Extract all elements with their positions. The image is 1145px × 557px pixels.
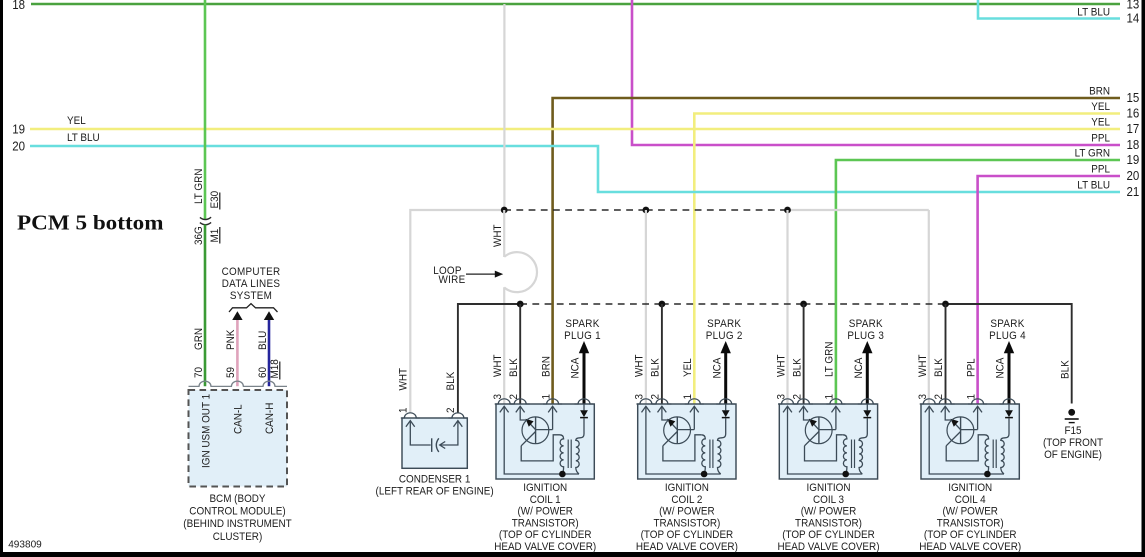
svg-text:(TOP OF CYLINDER: (TOP OF CYLINDER bbox=[782, 529, 875, 541]
svg-text:BCM (BODY: BCM (BODY bbox=[209, 493, 266, 505]
wire YEL row 16 (to ignition coil 2 pin 1) bbox=[694, 101, 1120, 404]
svg-text:2: 2 bbox=[445, 408, 457, 414]
svg-text:WHT: WHT bbox=[492, 354, 504, 377]
svg-text:SPARK: SPARK bbox=[565, 318, 600, 330]
junction dot (BLK bus / coil4 BLK) bbox=[942, 301, 949, 308]
svg-text:IGNITION: IGNITION bbox=[665, 482, 709, 494]
svg-text:CAN-L: CAN-L bbox=[233, 404, 245, 434]
wire WHT bus (condenser pin1 across coil pins 3) bbox=[410, 210, 929, 414]
svg-text:LT BLU: LT BLU bbox=[1077, 180, 1110, 192]
junction dot (coil 4 windings common) bbox=[984, 471, 991, 478]
svg-text:BLK: BLK bbox=[650, 358, 662, 377]
wire PPL row 18 (vertical x=632 then horizontal) bbox=[632, 0, 1120, 145]
svg-text:F15: F15 bbox=[1064, 425, 1081, 437]
wire BLU (BCM pin 60 to data lines) with arrow bbox=[257, 311, 274, 386]
svg-text:WHT: WHT bbox=[397, 368, 409, 391]
svg-text:BLK: BLK bbox=[791, 358, 803, 377]
svg-text:21: 21 bbox=[1127, 185, 1140, 199]
svg-text:NCA: NCA bbox=[995, 357, 1007, 378]
svg-text:20: 20 bbox=[1127, 169, 1140, 183]
svg-text:CAN-H: CAN-H bbox=[264, 403, 276, 434]
junction dot (BLK bus / coil1 BLK) bbox=[517, 301, 524, 308]
junction dot (coil 2 windings common) bbox=[701, 471, 708, 478]
svg-text:14: 14 bbox=[1127, 12, 1140, 26]
loop wire (circle) bbox=[504, 252, 537, 292]
svg-text:19: 19 bbox=[12, 123, 25, 137]
svg-text:WHT: WHT bbox=[917, 354, 929, 377]
svg-text:M1: M1 bbox=[209, 229, 221, 243]
svg-text:(W/ POWER: (W/ POWER bbox=[517, 506, 573, 518]
svg-text:PPL: PPL bbox=[965, 358, 977, 377]
svg-text:CONTROL MODULE): CONTROL MODULE) bbox=[189, 506, 285, 518]
svg-text:18: 18 bbox=[12, 0, 25, 12]
label M1 (connector, below) bbox=[209, 227, 221, 244]
svg-text:13: 13 bbox=[1127, 0, 1140, 12]
svg-text:YEL: YEL bbox=[682, 358, 694, 377]
junction dot (BLK bus / coil2 BLK) bbox=[659, 301, 666, 308]
condenser C1 box bbox=[401, 413, 468, 469]
wire PPL row 20 (to ignition coil 4 pin 1) bbox=[978, 164, 1120, 405]
wire BLK drop to coil 1 pin 2 bbox=[519, 304, 521, 404]
ignition coil 2 (w/ power transistor) bbox=[636, 399, 736, 479]
svg-text:PPL: PPL bbox=[1091, 133, 1110, 145]
svg-text:BLK: BLK bbox=[508, 358, 520, 377]
wire WHT from top edge to WHT bus bbox=[503, 4, 505, 210]
wire BLK drop to coil 2 pin 2 bbox=[661, 304, 663, 404]
spark plug 1 output wire with arrow bbox=[570, 341, 590, 404]
svg-text:PCM 5 bottom: PCM 5 bottom bbox=[17, 211, 164, 235]
svg-text:IGNITION: IGNITION bbox=[523, 482, 567, 494]
wire LT GRN row 19 (to ignition coil 3 pin 1) bbox=[836, 148, 1120, 405]
LOOP WIRE callout bbox=[433, 265, 503, 286]
svg-text:SPARK: SPARK bbox=[707, 318, 742, 330]
connector label M18 (BCM) bbox=[269, 359, 281, 379]
svg-text:PLUG 3: PLUG 3 bbox=[847, 330, 884, 342]
svg-text:LT GRN: LT GRN bbox=[193, 169, 205, 204]
svg-text:59: 59 bbox=[225, 367, 237, 378]
svg-text:(W/ POWER: (W/ POWER bbox=[801, 506, 857, 518]
spark plug 4 output wire with arrow bbox=[995, 341, 1015, 404]
svg-text:PLUG 1: PLUG 1 bbox=[564, 330, 601, 342]
svg-text:GRN: GRN bbox=[193, 328, 205, 350]
svg-text:(W/ POWER: (W/ POWER bbox=[942, 506, 998, 518]
ignition coil 1 (w/ power transistor) bbox=[495, 399, 595, 479]
svg-text:DATA LINES: DATA LINES bbox=[222, 278, 281, 290]
wire LT BLU row 20/21 (jogs down at x=598) bbox=[30, 132, 1120, 192]
svg-text:70: 70 bbox=[193, 367, 205, 378]
svg-text:PPL: PPL bbox=[1091, 164, 1110, 176]
svg-text:E30: E30 bbox=[209, 191, 221, 209]
svg-text:15: 15 bbox=[1127, 91, 1140, 105]
junction dot (BLK bus / coil3 BLK) bbox=[800, 301, 807, 308]
svg-text:20: 20 bbox=[12, 140, 25, 154]
ignition coil 3 (w/ power transistor) bbox=[778, 399, 878, 479]
wire WHT drop to coil 2 pin 3 bbox=[645, 210, 647, 404]
SPARK PLUG 4 label bbox=[989, 318, 1026, 342]
wire BRN row 15 (to ignition coil 1 pin 1) bbox=[553, 86, 1120, 405]
wire BLK bus (condenser pin2 across coil pins 2 to F15) bbox=[458, 304, 1072, 414]
wire BLK drop to coil 4 pin 2 bbox=[945, 304, 947, 404]
svg-text:WHT: WHT bbox=[634, 354, 646, 377]
spark plug 2 output wire with arrow bbox=[711, 341, 731, 404]
svg-text:19: 19 bbox=[1127, 153, 1140, 167]
svg-text:PLUG 2: PLUG 2 bbox=[706, 330, 743, 342]
svg-text:16: 16 bbox=[1127, 107, 1140, 121]
wire LT GRN trunk from top (PCM) bbox=[193, 0, 205, 219]
label E30 (connector, above) bbox=[209, 191, 221, 210]
svg-text:BLK: BLK bbox=[445, 371, 457, 390]
svg-text:(W/ POWER: (W/ POWER bbox=[659, 506, 715, 518]
svg-text:(TOP OF CYLINDER: (TOP OF CYLINDER bbox=[499, 529, 592, 541]
svg-text:TRANSISTOR): TRANSISTOR) bbox=[937, 517, 1004, 529]
svg-text:COIL 1: COIL 1 bbox=[530, 494, 561, 506]
svg-text:BRN: BRN bbox=[540, 356, 552, 377]
svg-text:17: 17 bbox=[1127, 122, 1140, 136]
svg-text:IGN USM OUT 1: IGN USM OUT 1 bbox=[200, 394, 212, 468]
svg-text:YEL: YEL bbox=[1091, 117, 1110, 129]
svg-text:YEL: YEL bbox=[67, 115, 86, 127]
svg-text:PNK: PNK bbox=[225, 329, 237, 350]
BCM caption bbox=[183, 493, 292, 543]
svg-text:WHT: WHT bbox=[492, 224, 504, 247]
SPARK PLUG 1 label bbox=[564, 318, 601, 342]
svg-text:BLU: BLU bbox=[257, 331, 269, 350]
svg-text:493809: 493809 bbox=[8, 539, 42, 551]
svg-text:LT GRN: LT GRN bbox=[824, 342, 836, 377]
ignition coil 4 (w/ power transistor) bbox=[920, 399, 1020, 479]
brace over data-line arrows bbox=[229, 304, 278, 312]
svg-text:CONDENSER 1: CONDENSER 1 bbox=[399, 474, 471, 486]
inline connector M1/E30 on green trunk bbox=[200, 217, 211, 225]
svg-text:(LEFT REAR OF ENGINE): (LEFT REAR OF ENGINE) bbox=[376, 486, 494, 498]
svg-text:60: 60 bbox=[257, 367, 269, 378]
svg-text:1: 1 bbox=[397, 408, 409, 414]
svg-text:IGNITION: IGNITION bbox=[948, 482, 992, 494]
svg-text:SPARK: SPARK bbox=[990, 318, 1025, 330]
ignition coil 2 caption bbox=[636, 482, 738, 553]
svg-text:YEL: YEL bbox=[1091, 101, 1110, 113]
junction dot (coil 1 windings common) bbox=[559, 471, 566, 478]
svg-text:(TOP OF CYLINDER: (TOP OF CYLINDER bbox=[641, 529, 734, 541]
svg-text:TRANSISTOR): TRANSISTOR) bbox=[795, 517, 862, 529]
svg-text:(TOP FRONT: (TOP FRONT bbox=[1043, 437, 1103, 449]
wire YEL row 19/17 (full width horizontal) bbox=[30, 115, 1120, 129]
svg-text:COIL 4: COIL 4 bbox=[955, 494, 986, 506]
ignition coil 1 caption bbox=[494, 482, 596, 553]
junction dot (WHT bus / coil3 WHT) bbox=[784, 207, 791, 214]
svg-text:36G: 36G bbox=[193, 226, 205, 245]
junction dot (coil 3 windings common) bbox=[842, 471, 849, 478]
wire WHT drop to coil 1 pin 3 with loop bbox=[492, 210, 504, 404]
node: COMPUTER DATA LINES SYSTEM label bbox=[222, 266, 281, 302]
svg-text:LT BLU: LT BLU bbox=[1077, 7, 1110, 19]
svg-text:BRN: BRN bbox=[1089, 86, 1110, 98]
SPARK PLUG 3 label bbox=[847, 318, 884, 342]
svg-text:COIL 2: COIL 2 bbox=[671, 494, 702, 506]
svg-text:PLUG 4: PLUG 4 bbox=[989, 330, 1026, 342]
svg-text:HEAD VALVE COVER): HEAD VALVE COVER) bbox=[494, 541, 596, 553]
condenser C1 caption bbox=[376, 474, 494, 498]
svg-text:NCA: NCA bbox=[853, 357, 865, 378]
wire GRN row 18/13 (top horizontal) bbox=[31, 3, 1120, 6]
svg-text:SPARK: SPARK bbox=[849, 318, 884, 330]
ground F15 bbox=[1060, 360, 1079, 423]
svg-text:CLUSTER): CLUSTER) bbox=[213, 531, 263, 543]
svg-text:LT GRN: LT GRN bbox=[1075, 148, 1110, 160]
svg-text:OF ENGINE): OF ENGINE) bbox=[1044, 449, 1102, 461]
svg-text:HEAD VALVE COVER): HEAD VALVE COVER) bbox=[919, 541, 1021, 553]
svg-text:(TOP OF CYLINDER: (TOP OF CYLINDER bbox=[924, 529, 1017, 541]
ignition coil 4 caption bbox=[919, 482, 1021, 553]
svg-text:WIRE: WIRE bbox=[439, 274, 466, 286]
spark plug 3 output wire with arrow bbox=[853, 341, 873, 404]
svg-text:WHT: WHT bbox=[775, 354, 787, 377]
SPARK PLUG 2 label bbox=[706, 318, 743, 342]
svg-text:NCA: NCA bbox=[711, 357, 723, 378]
svg-text:(BEHIND INSTRUMENT: (BEHIND INSTRUMENT bbox=[183, 518, 292, 530]
svg-text:SYSTEM: SYSTEM bbox=[230, 290, 272, 302]
svg-text:BLK: BLK bbox=[933, 358, 945, 377]
svg-text:HEAD VALVE COVER): HEAD VALVE COVER) bbox=[778, 541, 880, 553]
svg-text:IGNITION: IGNITION bbox=[807, 482, 851, 494]
wire PNK (BCM pin 59 to data lines) with arrow bbox=[225, 311, 242, 386]
svg-text:HEAD VALVE COVER): HEAD VALVE COVER) bbox=[636, 541, 738, 553]
wire LT BLU row 14 (top right) bbox=[978, 0, 1120, 19]
svg-text:BLK: BLK bbox=[1060, 360, 1072, 379]
junction dot (WHT bus / coil2 WHT) bbox=[643, 207, 650, 214]
svg-text:M18: M18 bbox=[269, 359, 281, 378]
svg-text:TRANSISTOR): TRANSISTOR) bbox=[653, 517, 720, 529]
svg-text:NCA: NCA bbox=[570, 357, 582, 378]
svg-text:COMPUTER: COMPUTER bbox=[222, 266, 281, 278]
junction dot (WHT bus / coil1 WHT) bbox=[501, 207, 508, 214]
ignition coil 3 caption bbox=[778, 482, 880, 553]
wire BLK drop to coil 3 pin 2 bbox=[803, 304, 805, 404]
wire WHT drop to coil 3 pin 3 bbox=[786, 210, 788, 404]
svg-text:TRANSISTOR): TRANSISTOR) bbox=[512, 517, 579, 529]
svg-text:18: 18 bbox=[1127, 138, 1140, 152]
F15 caption bbox=[1043, 425, 1103, 461]
wire GRN trunk to BCM pin 70 bbox=[193, 225, 205, 387]
BCM (Body Control Module) box bbox=[189, 381, 288, 486]
svg-text:COIL 3: COIL 3 bbox=[813, 494, 844, 506]
svg-text:LT BLU: LT BLU bbox=[67, 132, 100, 144]
